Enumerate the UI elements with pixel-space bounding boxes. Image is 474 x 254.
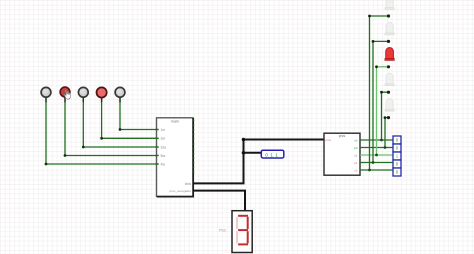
bus branch wire to probe xyxy=(244,152,262,154)
svg-text:PSC: PSC xyxy=(219,228,227,232)
node LED D2 pin xyxy=(387,40,390,43)
U3 segment g (lit) xyxy=(238,229,248,231)
junction trunk D2 tap xyxy=(372,161,375,164)
output pin box O3 value 1 xyxy=(393,152,401,160)
junction wire button3 corner xyxy=(82,146,85,149)
push button B3 (gray, released) xyxy=(78,87,88,97)
svg-text:s2: s2 xyxy=(354,168,358,172)
output pin box O4 value 0 xyxy=(393,160,401,168)
node trunk D4 corner xyxy=(380,91,383,94)
svg-text:proc_vecogador: proc_vecogador xyxy=(169,189,191,193)
subcircuit U2 "prcs" box xyxy=(324,133,360,175)
U3 segment e (off) xyxy=(236,231,238,243)
push button B4 (red, pressed) xyxy=(97,87,107,97)
output pin box O5 value 0 xyxy=(393,168,401,176)
junction node bus corner xyxy=(242,138,246,142)
button2 pin stub xyxy=(64,97,66,102)
U1 input pin 3 tick xyxy=(155,146,158,148)
node trunk D2 corner xyxy=(372,40,375,43)
push button B5 (gray, released) xyxy=(115,87,125,97)
wire trunk to LED D4 xyxy=(382,92,389,140)
svg-text:p0: p0 xyxy=(354,146,358,150)
wire U2 pin5 to output pin box O5 xyxy=(360,169,393,171)
node trunk D5 corner xyxy=(384,116,387,119)
probe P1 value box xyxy=(261,150,284,158)
svg-text:s1: s1 xyxy=(354,153,358,157)
svg-text:p1: p1 xyxy=(354,161,358,165)
U3 segment b (lit) xyxy=(247,217,249,229)
U1 input pin 4 tick xyxy=(155,155,158,157)
button1 pin stub xyxy=(45,97,47,102)
svg-text:main: main xyxy=(171,119,179,123)
U3 segment f (off) xyxy=(236,217,238,229)
svg-text:011: 011 xyxy=(265,152,280,157)
wire button4 to main pin 2 xyxy=(102,98,157,139)
svg-text:pins: pins xyxy=(326,138,332,142)
LED D4 (off) xyxy=(385,73,394,86)
svg-text:leds: leds xyxy=(185,182,191,186)
node LED D4 pin xyxy=(387,91,390,94)
wire button3 to main pin 3 xyxy=(83,98,156,148)
wire trunk to LED D2 xyxy=(373,41,389,162)
svg-text:2da: 2da xyxy=(161,145,167,149)
junction wire button2 corner xyxy=(64,154,67,157)
mouse poke cursor over button B2 xyxy=(64,89,71,99)
junction trunk D1 tap xyxy=(368,169,371,172)
button4 pin stub xyxy=(101,97,103,102)
junction wire button1 corner xyxy=(45,163,48,166)
svg-text:s0: s0 xyxy=(354,138,358,142)
junction trunk D4 tap xyxy=(380,139,383,142)
7-segment display U3 box xyxy=(232,211,252,253)
wire U2 pin3 to output pin box O3 (high) xyxy=(360,154,393,156)
subcircuit U1 "main" box xyxy=(157,118,194,197)
output pin box O2 value 0 xyxy=(393,144,401,152)
junction wire button5 corner xyxy=(119,128,122,131)
wire U2 pin1 to output pin box O1 xyxy=(360,139,393,141)
wire button2 to main pin 4 xyxy=(65,98,157,156)
wire U2 pin4 to output pin box O4 xyxy=(360,162,393,164)
node LED D1 pin xyxy=(387,14,390,17)
output pin box O1 value 0 xyxy=(393,136,401,144)
wire trunk to LED D5 xyxy=(385,118,389,148)
button5 pin stub xyxy=(119,97,121,102)
node LED D5 pin xyxy=(387,116,390,119)
wire trunk to LED D1 xyxy=(370,16,389,170)
svg-text:4ta: 4ta xyxy=(161,162,166,166)
U1 input pin 1 tick xyxy=(155,129,158,131)
node trunk D3 corner xyxy=(375,65,378,68)
wire trunk to LED D3 (high, lit) xyxy=(377,67,389,155)
U3 segment a (lit) xyxy=(238,215,248,217)
U1 input pin 2 tick xyxy=(155,137,158,139)
LED D5 (off) xyxy=(385,99,394,112)
junction node probe tap xyxy=(242,151,246,155)
wire U2 pin2 to output pin box O2 xyxy=(360,147,393,149)
U3 segment d (lit) xyxy=(238,243,248,245)
LED D1 (off, clipped at top edge) xyxy=(385,0,394,10)
LED D3 (lit red) xyxy=(385,47,394,60)
wire button1 to main pin 5 xyxy=(46,98,157,165)
bus wire leds: U1 to U2 prcs xyxy=(193,140,324,184)
push button B2 (red, pressed) xyxy=(60,87,70,97)
U1 right-edge unconnected pin ticks xyxy=(192,121,194,173)
wire button5 to main pin 1 xyxy=(120,98,157,130)
bus wire proc_vecogador: U1 to 7-segment display xyxy=(193,191,245,211)
node trunk D1 corner xyxy=(368,15,371,18)
push button B1 (gray, released) xyxy=(41,87,51,97)
button3 pin stub xyxy=(82,97,84,102)
U1 input pin 5 tick xyxy=(155,163,158,165)
svg-text:prcs: prcs xyxy=(339,134,346,138)
svg-text:5ta: 5ta xyxy=(161,154,166,158)
junction wire button4 corner xyxy=(100,137,103,140)
junction trunk D5 tap xyxy=(384,146,387,149)
node LED D3 pin xyxy=(387,65,390,68)
LED D2 (off) xyxy=(385,22,394,35)
junction trunk D3 tap xyxy=(375,154,378,157)
U3 segment c (lit) xyxy=(247,231,249,243)
